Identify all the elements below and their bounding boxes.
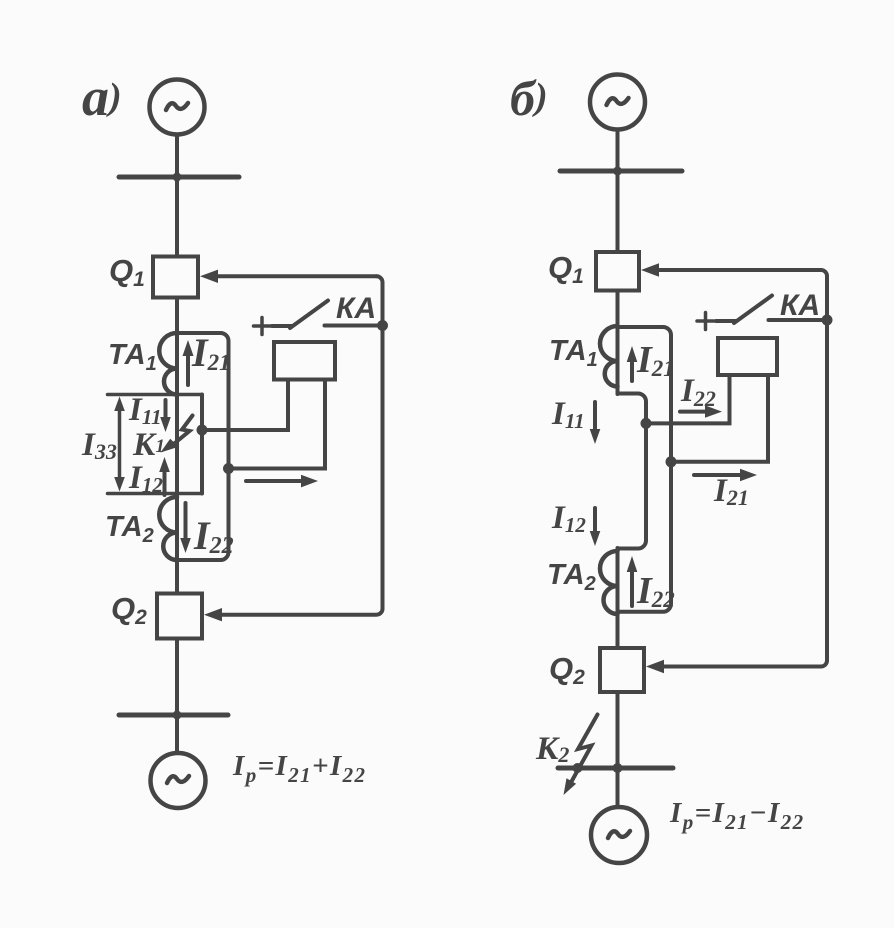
node busbar W4 junction	[613, 763, 623, 773]
svg-text:I11: I11	[551, 396, 585, 433]
fault K1 lightning arrow	[161, 416, 193, 453]
arrow relay current direction (right)	[246, 475, 318, 488]
svg-text:I11: I11	[128, 392, 162, 429]
wire TA2 to breaker Q2	[175, 560, 179, 594]
arrow I22 (down, in TA2 secondary)	[180, 503, 191, 553]
busbar W3 (top right)	[560, 169, 682, 174]
wire busbar W4 to generator G4	[616, 768, 620, 807]
svg-text:I33: I33	[81, 427, 117, 464]
arrow I21 (up, in TA1 secondary)	[183, 340, 194, 385]
dimension arrow I33 (double headed)	[114, 397, 125, 492]
svg-text:а): а)	[82, 67, 122, 127]
svg-text:КА: КА	[780, 289, 820, 322]
wire CT secondary inner loop vertical	[200, 395, 204, 494]
svg-text:I22: I22	[680, 373, 716, 411]
svg-text:ТА1: ТА1	[108, 339, 157, 375]
contact KA (left diagram)	[272, 301, 380, 329]
current transformer TA2 (left diagram) primary coil	[159, 497, 177, 560]
svg-text:I12: I12	[551, 500, 586, 537]
busbar W1 (top left)	[119, 175, 239, 180]
svg-text:ТА2: ТА2	[105, 511, 154, 547]
svg-text:Q1: Q1	[548, 250, 584, 288]
svg-text:К2: К2	[535, 731, 569, 767]
arrow I21 (up, TA1 secondary right)	[627, 346, 638, 381]
plus terminal (right)	[697, 313, 714, 330]
svg-text:Q1: Q1	[109, 253, 145, 291]
generator G4 (bottom, right diagram)	[591, 807, 647, 863]
node fault point K2 on busbar	[573, 763, 583, 773]
breaker Q2 (left diagram)	[157, 594, 202, 639]
wire generator G3 to busbar W3	[616, 130, 620, 172]
svg-text:I21: I21	[191, 330, 231, 375]
node relay tap on outer loop	[223, 463, 234, 474]
wire Q2 to busbar W4	[616, 692, 620, 768]
plus terminal	[254, 318, 271, 335]
wire Q1 to TA1 (right)	[616, 291, 620, 327]
node relay tap on outer loop (right)	[666, 456, 677, 467]
trip arrow into Q1	[200, 270, 377, 283]
wire main line through TA2	[175, 394, 179, 560]
generator G2 (bottom, left diagram)	[151, 753, 206, 808]
wire busbar W1 to breaker Q1	[175, 177, 179, 257]
arrow I11 (down)	[160, 400, 171, 432]
wire busbar W2 to generator G2	[175, 715, 179, 753]
wire main line through TA1	[175, 331, 179, 394]
svg-text:Q2: Q2	[549, 651, 585, 689]
svg-text:ТА2: ТА2	[547, 559, 596, 595]
svg-text:К1: К1	[132, 427, 165, 463]
wire relay KA left pin (right diagram)	[646, 376, 730, 424]
busbar W2 (bottom left)	[119, 713, 228, 718]
wire busbar W3 to breaker Q1	[616, 171, 620, 252]
relay coil KA (right diagram)	[718, 338, 777, 375]
node trip bus junction	[377, 320, 388, 331]
arrow I11 (down, right)	[590, 402, 601, 444]
arrow I12 (up)	[159, 457, 170, 495]
node relay tap on inner loop (right)	[641, 418, 652, 429]
node trip bus junction (right)	[822, 315, 833, 326]
wire generator G1 to busbar W1	[175, 135, 179, 178]
svg-text:ТА1: ТА1	[549, 335, 598, 371]
wire relay KA right pin to outer loop	[229, 380, 326, 469]
svg-text:I12: I12	[128, 460, 163, 497]
wire trip circuit (right diagram)	[664, 270, 827, 667]
arrow I22 (up, TA2 secondary right)	[627, 556, 638, 606]
current transformer TA1 (left diagram) primary coil	[159, 333, 177, 395]
wire relay KA left pin to inner loop	[202, 380, 288, 431]
trip arrow into Q1 (right)	[641, 263, 821, 276]
node busbar W3 junction	[613, 167, 622, 176]
generator G1 (top, left diagram)	[150, 80, 205, 135]
wire TA2 to Q2 (right)	[616, 614, 620, 648]
busbar W4 (bottom right)	[558, 766, 673, 771]
wire trip circuit (right vertical, to Q2)	[222, 276, 383, 614]
wire CT secondary outer loop (TA1 top to TA2 bottom)	[177, 333, 229, 560]
trip arrow into Q2	[204, 608, 222, 621]
wire relay KA right pin (right diagram)	[671, 376, 768, 462]
svg-text:I22: I22	[636, 570, 675, 612]
svg-text:Ip=I21+I22: Ip=I21+I22	[232, 750, 366, 787]
fault K2 lightning arrow	[564, 715, 598, 796]
zone boundary line (bottom)	[108, 492, 203, 496]
svg-text:Q2: Q2	[111, 591, 147, 629]
wire main line through TA2 (right)	[616, 548, 620, 614]
breaker Q2 (right diagram)	[600, 648, 644, 692]
breaker Q1 (left diagram)	[153, 257, 198, 298]
svg-text:Ip=I21−I22: Ip=I21−I22	[669, 797, 805, 834]
wire Q2 to busbar W2	[175, 639, 179, 716]
svg-text:КА: КА	[336, 292, 376, 325]
arrow I22 branch direction (right)	[680, 405, 722, 417]
zone boundary line (top)	[108, 393, 203, 397]
arrow I21 branch direction (right)	[694, 469, 757, 481]
current transformer TA2 (right diagram) primary coil	[600, 551, 618, 614]
node busbar W1 / feeder junction	[173, 173, 182, 182]
trip arrow into Q2 (right)	[646, 660, 664, 673]
contact KA (right diagram)	[716, 296, 824, 324]
relay coil KA (left diagram)	[274, 342, 335, 380]
svg-text:I21: I21	[636, 339, 675, 381]
arrow I12 (down, right)	[590, 508, 601, 546]
wire Q1 to TA1	[175, 298, 179, 333]
node busbar W2 junction	[173, 711, 182, 720]
current transformer TA1 (right diagram) primary coil	[600, 326, 618, 387]
wire CT secondary outer loop (right diagram)	[618, 327, 672, 612]
wire main line through TA1 (right)	[616, 325, 620, 394]
wire CT secondary inner loop (right diagram)	[618, 394, 647, 549]
node relay tap on inner loop	[197, 425, 208, 436]
breaker Q1 (right diagram)	[596, 252, 639, 291]
generator G3 (top, right diagram)	[590, 75, 645, 130]
svg-text:б): б)	[510, 70, 548, 126]
